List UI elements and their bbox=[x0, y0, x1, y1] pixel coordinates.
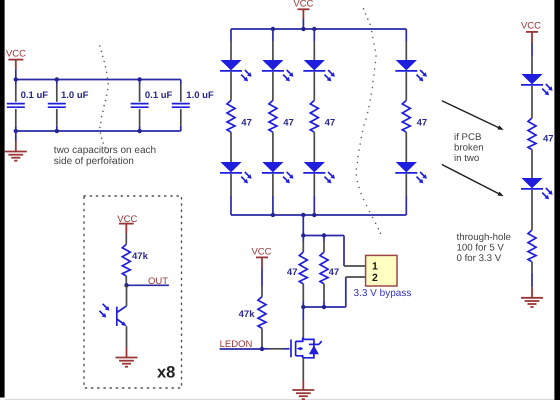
svg-text:100 for 5 V: 100 for 5 V bbox=[457, 243, 505, 254]
svg-text:47: 47 bbox=[283, 117, 294, 128]
arrow annotation lower bbox=[442, 165, 504, 197]
LED D3b bbox=[303, 132, 335, 196]
wire to bypass pin 2 bbox=[346, 277, 366, 307]
wire top rail bus bbox=[16, 79, 181, 81]
border: right black bar bbox=[554, 0, 560, 400]
svg-text:VCC: VCC bbox=[6, 49, 26, 60]
svg-text:47: 47 bbox=[287, 267, 298, 278]
wire LED cathode bus (bottom) bbox=[231, 214, 406, 216]
power symbol VCC (sensor) bbox=[117, 214, 137, 234]
annotation: if PCB broken in two bbox=[454, 132, 484, 164]
resistor R1 47 bbox=[227, 100, 235, 132]
svg-text:47: 47 bbox=[241, 117, 252, 128]
LED D2a bbox=[262, 41, 294, 100]
svg-text:1.0 uF: 1.0 uF bbox=[61, 90, 89, 101]
svg-text:broken: broken bbox=[454, 143, 484, 154]
light arrows into phototransistor bbox=[99, 304, 109, 318]
resistor R5 47 (left of pair) bbox=[299, 236, 307, 308]
power symbol VCC (LED matrix) bbox=[293, 0, 313, 19]
wire VCC to LED D5a bbox=[531, 43, 533, 74]
LED D2b bbox=[262, 132, 294, 196]
transistor Q1 N-MOSFET with body diode bbox=[291, 337, 322, 358]
ground (capacitor rail) bbox=[5, 131, 27, 161]
LED D1a bbox=[220, 41, 252, 100]
svg-text:47: 47 bbox=[329, 267, 340, 278]
resistor R9 47 bbox=[528, 118, 536, 150]
LED D4a bbox=[395, 41, 427, 100]
wire VCC stub to anode bus bbox=[302, 19, 304, 30]
svg-text:0.1 uF: 0.1 uF bbox=[21, 90, 49, 101]
dashed box (x8 repeated circuit) bbox=[84, 196, 182, 388]
annotation: through-hole 100 for 5 V / 0 for 3.3 V bbox=[457, 232, 511, 264]
wire column 1 drop bbox=[230, 29, 232, 41]
wire column 4 to cathode bus bbox=[405, 196, 407, 215]
wire LED anode bus (top) bbox=[231, 28, 406, 30]
wire column 1 to cathode bus bbox=[230, 196, 232, 215]
border: left black bar bbox=[0, 0, 5, 398]
wire cathode bus drop to resistor pair bbox=[302, 215, 304, 236]
svg-text:x8: x8 bbox=[157, 363, 175, 381]
svg-text:1.0 uF: 1.0 uF bbox=[186, 90, 214, 101]
resistor R3 47 bbox=[310, 100, 318, 132]
wire resistor-pair bottom link bbox=[303, 306, 346, 308]
node junction dots resistor-pair bottom bbox=[301, 305, 326, 309]
perforation dotted line (capacitor section) bbox=[99, 45, 113, 162]
svg-text:47: 47 bbox=[543, 134, 554, 145]
wire LEDON net bbox=[220, 348, 262, 350]
ground (MOSFET source) bbox=[292, 390, 314, 399]
capacitor C2 bbox=[48, 80, 66, 132]
svg-text:0.1 uF: 0.1 uF bbox=[145, 90, 173, 101]
wire to R10 bbox=[531, 190, 533, 230]
wire OUT net bbox=[127, 284, 169, 286]
wire column 2 to cathode bus bbox=[272, 196, 274, 215]
LED D4b bbox=[395, 132, 427, 196]
svg-text:47k: 47k bbox=[132, 251, 149, 262]
wire to LED D5b bbox=[531, 150, 533, 178]
ground (right column) bbox=[521, 298, 543, 307]
node junction dots anode bus bbox=[271, 27, 317, 31]
svg-text:VCC: VCC bbox=[251, 247, 271, 258]
resistor R4 47 bbox=[402, 100, 410, 132]
resistor R7 47k bbox=[258, 297, 266, 329]
node junction dots top rail bbox=[14, 77, 142, 81]
wire column 2 drop bbox=[272, 29, 274, 41]
node junction dots bottom rail bbox=[14, 129, 142, 133]
wire resistor pair to MOSFET drain bbox=[302, 307, 304, 339]
wire LEDON to gate bbox=[262, 348, 290, 350]
svg-text:two capacitors on each: two capacitors on each bbox=[54, 145, 156, 156]
svg-text:if PCB: if PCB bbox=[454, 132, 481, 143]
svg-text:47k: 47k bbox=[239, 309, 256, 320]
connector J1 3.3 V bypass box bbox=[366, 255, 397, 286]
wire R10 to ground bbox=[531, 262, 533, 298]
ground (phototransistor emitter) bbox=[116, 358, 138, 367]
capacitor C4 bbox=[172, 80, 190, 132]
wire column 3 drop bbox=[313, 29, 315, 41]
LED D1b bbox=[220, 132, 252, 196]
annotation: two capacitors on each side of perforation bbox=[54, 145, 156, 167]
wire VCC to R7 bbox=[261, 267, 263, 296]
wire resistor-pair top link bbox=[303, 235, 344, 237]
resistor R8 47k bbox=[122, 234, 130, 286]
LED D3a bbox=[303, 41, 335, 100]
wire R7 to LEDON node bbox=[261, 328, 263, 349]
resistor R6 47 (right of pair) bbox=[320, 236, 328, 308]
wire to R9 bbox=[531, 86, 533, 118]
wire to bypass pin 1 bbox=[344, 236, 366, 267]
arrow annotation upper bbox=[442, 101, 504, 130]
wire emitter to ground bbox=[126, 326, 128, 357]
capacitor C3 bbox=[131, 80, 149, 132]
svg-text:0 for 3.3 V: 0 for 3.3 V bbox=[457, 253, 502, 264]
wire column 4 drop bbox=[405, 29, 407, 41]
svg-text:in two: in two bbox=[454, 153, 479, 164]
perforation dotted line (LED matrix) bbox=[356, 8, 382, 234]
wire column 3 to cathode bus bbox=[313, 196, 315, 215]
svg-text:47: 47 bbox=[325, 117, 336, 128]
svg-text:47: 47 bbox=[417, 117, 428, 128]
node junction dot LEDON bbox=[260, 347, 264, 351]
capacitor C1 bbox=[7, 80, 25, 132]
svg-text:through-hole: through-hole bbox=[457, 232, 511, 243]
wire OUT to phototransistor collector bbox=[126, 285, 128, 306]
transistor Q2 phototransistor bbox=[117, 306, 127, 326]
svg-text:VCC: VCC bbox=[521, 20, 541, 31]
svg-text:1: 1 bbox=[372, 260, 378, 272]
svg-text:2: 2 bbox=[372, 272, 378, 284]
node junction dots cathode bus bbox=[271, 213, 317, 217]
power symbol VCC (capacitor rail) bbox=[6, 49, 26, 70]
wire bottom rail bus bbox=[16, 130, 181, 132]
svg-text:3.3 V bypass: 3.3 V bypass bbox=[354, 288, 412, 299]
resistor R10 through-hole bbox=[528, 230, 536, 262]
power symbol VCC (LEDON pull-up) bbox=[251, 247, 271, 268]
svg-text:VCC: VCC bbox=[293, 0, 313, 9]
resistor R2 47 bbox=[269, 100, 277, 132]
power symbol VCC (right column) bbox=[521, 20, 541, 43]
wire VCC stub to top rail bbox=[15, 69, 17, 79]
LED D5b bbox=[521, 178, 553, 199]
node junction dots resistor-pair top bbox=[301, 233, 326, 237]
svg-text:side of perforation: side of perforation bbox=[54, 156, 134, 167]
node junction dot OUT bbox=[124, 283, 128, 287]
LED D5a bbox=[521, 74, 553, 95]
wire MOSFET source to ground bbox=[302, 358, 304, 390]
